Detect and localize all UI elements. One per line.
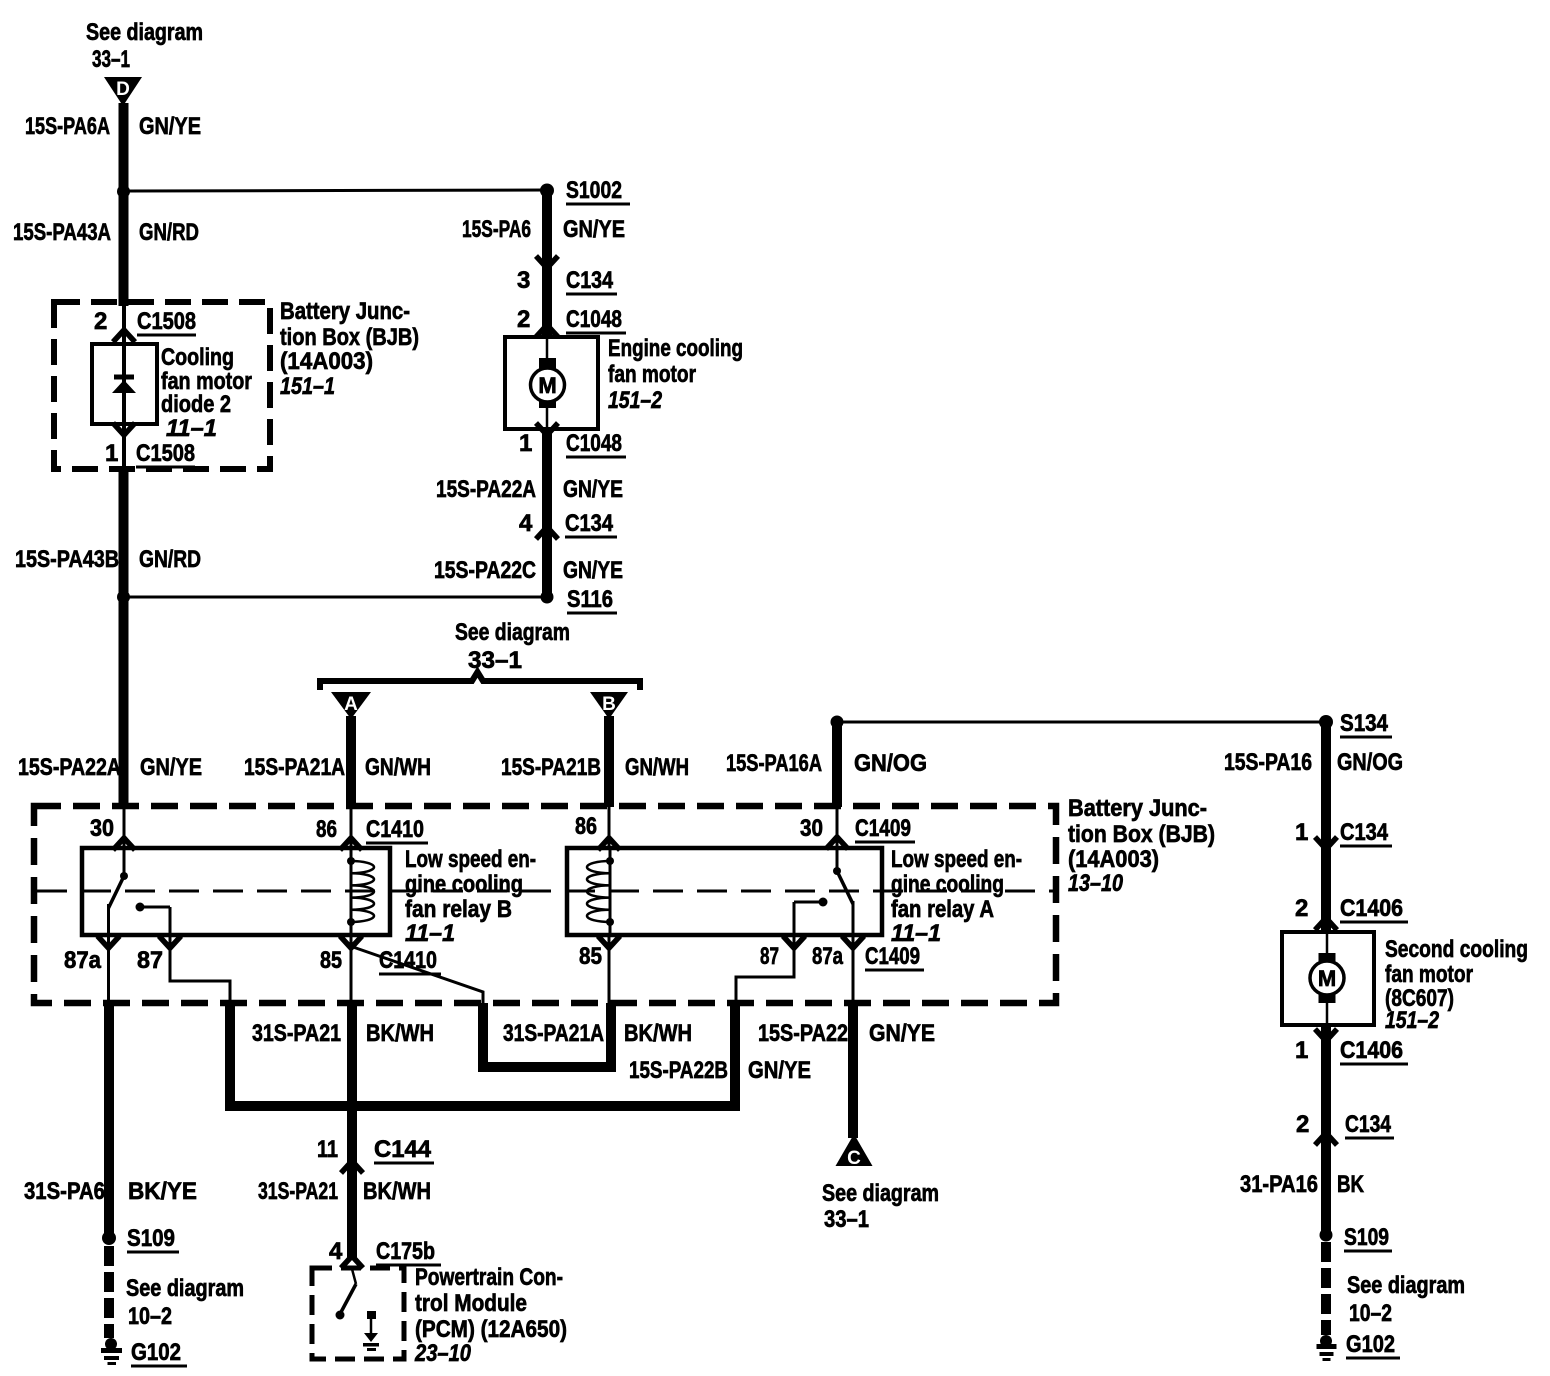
connector C1406 (bottom) <box>1340 1037 1408 1064</box>
svg-text:M: M <box>1318 966 1336 991</box>
motor M1 internals <box>531 337 565 429</box>
note: See diagram 10-2 (left) <box>126 1275 244 1330</box>
PCM internal ground arrow <box>363 1311 379 1351</box>
connector C144 <box>374 1136 434 1163</box>
connector C1409 (top) <box>855 815 915 842</box>
svg-text:(PCM) (12A650): (PCM) (12A650) <box>415 1316 567 1343</box>
wire 31-PA16 (thick) <box>1321 1025 1331 1237</box>
svg-text:C1508: C1508 <box>136 440 195 467</box>
svg-text:C1048: C1048 <box>566 430 622 457</box>
svg-text:G102: G102 <box>1346 1331 1395 1358</box>
Battery Junction Box dashed outline (upper) <box>54 302 270 469</box>
svg-text:15S-PA22B: 15S-PA22B <box>629 1057 728 1084</box>
svg-text:tion Box (BJB): tion Box (BJB) <box>1068 821 1215 848</box>
svg-text:GN/YE: GN/YE <box>563 557 623 584</box>
svg-text:10–2: 10–2 <box>1349 1300 1392 1327</box>
svg-text:BK/WH: BK/WH <box>366 1020 434 1047</box>
wire 31S-PA6 (thick, relay B 87a down) <box>104 1003 114 1240</box>
svg-text:GN/YE: GN/YE <box>869 1020 935 1047</box>
svg-text:15S-PA22A: 15S-PA22A <box>18 754 121 781</box>
svg-text:1: 1 <box>1295 1037 1308 1064</box>
relay B coil <box>347 848 374 935</box>
svg-text:BK/WH: BK/WH <box>363 1178 431 1205</box>
svg-text:13–10: 13–10 <box>1068 870 1124 897</box>
svg-text:85: 85 <box>320 947 342 974</box>
svg-text:15S-PA21A: 15S-PA21A <box>244 754 345 781</box>
svg-text:11–1: 11–1 <box>166 415 217 442</box>
connector C134 (pin 4) <box>565 510 617 537</box>
relay A switch <box>794 848 853 935</box>
Powertrain Control Module dashed box <box>312 1268 404 1359</box>
wire 15S-PA6 (thick) <box>542 190 552 337</box>
off-page connector C <box>836 1134 873 1169</box>
svg-text:87a: 87a <box>812 943 844 970</box>
svg-text:15S-PA6A: 15S-PA6A <box>25 113 110 140</box>
svg-text:C1508: C1508 <box>137 308 196 335</box>
arrow up into diode (pin 2) <box>113 330 135 342</box>
svg-text:151–2: 151–2 <box>1385 1007 1440 1034</box>
connector C1410 (top) <box>366 816 428 843</box>
svg-text:11–1: 11–1 <box>405 920 455 947</box>
Battery Junction Box dashed outline (lower) <box>34 806 1056 1003</box>
splice junction dot (15S-PA43B to S116 tap) <box>117 591 130 604</box>
svg-text:87: 87 <box>760 943 779 970</box>
svg-text:15S-PA22A: 15S-PA22A <box>436 476 536 503</box>
svg-text:Powertrain Con-: Powertrain Con- <box>415 1264 563 1291</box>
svg-text:B: B <box>602 694 616 715</box>
arrow down relay B pin 87 <box>159 936 181 948</box>
connector C175b <box>376 1238 441 1265</box>
svg-text:S109: S109 <box>127 1225 175 1252</box>
arrow down at C1406 pin 1 <box>1315 1029 1337 1041</box>
arrow down out of motor (pin 1) <box>536 423 558 435</box>
svg-text:See diagram: See diagram <box>126 1275 244 1302</box>
svg-text:3: 3 <box>517 267 530 294</box>
connector C1406 (top) <box>1340 895 1408 922</box>
pin 86 lead (relay B) <box>350 807 353 848</box>
svg-text:30: 30 <box>90 815 114 842</box>
wire to S116 (thin horizontal) <box>124 596 548 599</box>
arrow down out of diode (pin 1) <box>113 423 135 435</box>
connector C134 (right top) <box>1340 819 1392 846</box>
svg-text:2: 2 <box>1295 895 1308 922</box>
arrow up at C1406 pin 2 <box>1315 918 1337 930</box>
connector C1048 (pin 2) <box>566 306 626 333</box>
svg-text:C1406: C1406 <box>1340 895 1403 922</box>
svg-text:S1002: S1002 <box>566 177 622 204</box>
wire through diode box (thin) <box>122 306 126 469</box>
off-page connector D <box>104 77 142 106</box>
splice S116 dot <box>541 591 554 604</box>
svg-text:Low speed en-: Low speed en- <box>891 846 1022 873</box>
svg-text:15S-PA22: 15S-PA22 <box>758 1020 848 1047</box>
arrow down at C134 pin 1 (right) <box>1315 837 1337 849</box>
svg-text:15S-PA43A: 15S-PA43A <box>13 219 111 246</box>
svg-text:151–2: 151–2 <box>608 387 663 414</box>
svg-text:C1406: C1406 <box>1340 1037 1403 1064</box>
wire relay A 87 inside BJB <box>736 935 794 1004</box>
PCM internal switch <box>336 1269 357 1320</box>
svg-text:C134: C134 <box>565 510 614 537</box>
lead relay A 87a to BJB edge <box>852 935 855 1004</box>
splice junction dot (15S-PA6A to S1002 tap) <box>117 185 130 198</box>
arrow down relay A pin 87a <box>842 936 864 948</box>
svg-text:31-PA16: 31-PA16 <box>1240 1171 1318 1198</box>
note: See diagram 33-1 (middle) <box>455 619 570 674</box>
component text: Second cooling fan motor <box>1385 936 1528 1034</box>
relay A box <box>567 848 882 935</box>
svg-text:15S-PA16: 15S-PA16 <box>1224 749 1312 776</box>
svg-text:Engine cooling: Engine cooling <box>608 335 743 362</box>
svg-text:GN/YE: GN/YE <box>139 113 201 140</box>
splice S109 dot (left) <box>102 1231 116 1245</box>
diode symbol <box>112 377 136 393</box>
dashed wire to G102 (right) <box>1321 1242 1331 1335</box>
svg-text:15S-PA22C: 15S-PA22C <box>434 557 536 584</box>
svg-text:2: 2 <box>517 306 530 333</box>
ground G102 (right) <box>1317 1335 1337 1361</box>
arrow up at C175b pin 4 <box>341 1256 363 1268</box>
wire 15S-PA43B (thick) <box>119 469 129 601</box>
pin 86 lead (relay A) <box>608 807 611 848</box>
arrow down relay A pin 87 <box>783 936 805 948</box>
svg-text:86: 86 <box>575 813 597 840</box>
dashed wire to G102 (left) <box>104 1246 114 1338</box>
note: See diagram 10-2 (right) <box>1347 1272 1465 1327</box>
arrow down at C134 pin 3 <box>536 256 558 268</box>
label S1002 <box>566 177 630 204</box>
second cooling fan motor M2 box <box>1282 932 1374 1025</box>
wire 31S-PA21 (thick, relay B 85 to PCM) <box>347 1003 357 1258</box>
arrow up at relay A pin 86 <box>598 838 620 850</box>
note: See diagram 33-1 (bottom) <box>822 1180 939 1233</box>
lead relay B 85 to BJB edge <box>350 935 353 1004</box>
wire 15S-PA6A / 15S-PA43A (thick vertical, left) <box>119 103 129 306</box>
svg-text:See diagram: See diagram <box>1347 1272 1465 1299</box>
svg-text:GN/YE: GN/YE <box>140 754 202 781</box>
svg-text:C1409: C1409 <box>865 943 920 970</box>
svg-text:C: C <box>847 1148 861 1169</box>
svg-text:33–1: 33–1 <box>92 46 130 73</box>
svg-text:(14A003): (14A003) <box>280 348 373 375</box>
component text: Low speed engine cooling fan relay A <box>891 846 1022 947</box>
label S116 <box>567 586 617 613</box>
svg-text:4: 4 <box>519 510 533 537</box>
svg-text:GN/OG: GN/OG <box>854 750 927 777</box>
svg-text:fan relay B: fan relay B <box>405 896 512 923</box>
svg-text:BK/WH: BK/WH <box>624 1020 692 1047</box>
svg-text:C134: C134 <box>566 267 614 294</box>
svg-text:GN/WH: GN/WH <box>625 754 689 781</box>
wire 15S-PA21B (thick) <box>604 716 614 807</box>
junction dot (15S-PA16A tap) <box>831 716 844 729</box>
connector C1409 (bottom) <box>865 943 924 970</box>
svg-text:Battery Junc-: Battery Junc- <box>1068 795 1207 822</box>
svg-text:C1410: C1410 <box>366 816 424 843</box>
svg-text:33–1: 33–1 <box>824 1206 869 1233</box>
connector C1048 (pin 1) <box>566 430 626 457</box>
component text: Engine cooling fan motor <box>608 335 743 414</box>
label S109 (left) <box>127 1225 179 1252</box>
svg-text:Cooling: Cooling <box>161 344 234 371</box>
wire 15S-PA22 (thick, relay A 87a down) <box>848 1003 858 1138</box>
connector C134 (right bottom) <box>1345 1111 1394 1138</box>
svg-text:GN/RD: GN/RD <box>139 219 199 246</box>
motor M2 internals <box>1310 932 1344 1025</box>
svg-text:S116: S116 <box>567 586 613 613</box>
ground G102 (left) <box>101 1338 122 1365</box>
svg-text:C175b: C175b <box>376 1238 435 1265</box>
svg-text:BK: BK <box>1337 1171 1365 1198</box>
lead relay B 87a to BJB edge <box>107 935 110 1004</box>
arrow up at C134 pin 2 (right) <box>1315 1133 1337 1145</box>
off-page connector B <box>590 692 628 719</box>
svg-text:4: 4 <box>329 1238 343 1265</box>
relay B switch <box>109 848 171 935</box>
cooling fan motor diode 2 box <box>92 344 157 424</box>
svg-text:GN/WH: GN/WH <box>365 754 431 781</box>
svg-text:GN/RD: GN/RD <box>139 546 201 573</box>
svg-text:23–10: 23–10 <box>414 1340 471 1367</box>
svg-text:C134: C134 <box>1340 819 1389 846</box>
label S134 <box>1340 710 1392 737</box>
wire 15S-PA16 (thick) <box>1321 722 1331 932</box>
svg-text:11: 11 <box>317 1136 338 1163</box>
svg-text:See diagram: See diagram <box>822 1180 939 1207</box>
svg-text:31S-PA21: 31S-PA21 <box>252 1020 341 1047</box>
note: See diagram 33-1 (top left) <box>86 19 203 73</box>
wire 15S-PA22A right (thick) <box>542 429 552 601</box>
svg-text:Second cooling: Second cooling <box>1385 936 1528 963</box>
label G102 (left) <box>131 1339 187 1366</box>
arrow up at C134 pin 4 <box>536 527 558 539</box>
svg-text:A: A <box>344 694 358 715</box>
svg-text:S109: S109 <box>1344 1224 1389 1251</box>
engine cooling fan motor M1 box <box>505 337 598 429</box>
lead relay A 85 to BJB edge <box>608 935 611 1004</box>
wire 15S-PA21A (thick) <box>346 716 356 807</box>
svg-text:C1409: C1409 <box>855 815 911 842</box>
wire 31S-PA21A diagonal branch <box>353 947 483 1004</box>
svg-text:1: 1 <box>105 440 118 467</box>
pin 30 lead (relay A) <box>836 807 839 848</box>
arrow down relay B pin 87a <box>98 936 120 948</box>
svg-text:30: 30 <box>800 815 823 842</box>
svg-text:1: 1 <box>1295 819 1308 846</box>
svg-text:See diagram: See diagram <box>455 619 570 646</box>
svg-text:D: D <box>116 79 130 100</box>
off-page connector A <box>331 692 371 719</box>
BJB title (lower) <box>1068 795 1215 897</box>
svg-text:BK/YE: BK/YE <box>128 1178 197 1205</box>
BJB title (upper) <box>280 298 419 400</box>
svg-text:fan motor: fan motor <box>608 361 696 388</box>
svg-text:10–2: 10–2 <box>128 1303 172 1330</box>
svg-text:C1048: C1048 <box>566 306 622 333</box>
svg-text:GN/YE: GN/YE <box>748 1057 811 1084</box>
svg-text:86: 86 <box>316 816 337 843</box>
splice S1002 dot <box>540 184 554 198</box>
svg-text:diode 2: diode 2 <box>161 391 231 418</box>
svg-text:fan relay A: fan relay A <box>891 896 994 923</box>
wire 15S-PA16A (thick) <box>832 722 842 807</box>
svg-text:2: 2 <box>1296 1111 1309 1138</box>
svg-text:Battery Junc-: Battery Junc- <box>280 298 410 325</box>
wire relay B 87 inside BJB <box>170 935 230 1004</box>
svg-text:Low speed en-: Low speed en- <box>405 846 536 873</box>
component text: Low speed engine cooling fan relay B <box>405 846 536 947</box>
arrow down relay B pin 85 <box>340 936 362 948</box>
svg-text:fan motor: fan motor <box>1385 961 1473 988</box>
pin 30 lead (relay B) <box>123 807 126 848</box>
wire 15S-PA22A left (thick) <box>119 597 129 807</box>
arrow up at relay A pin 30 <box>826 837 848 849</box>
wire 31S-PA21A U-branch (thick) <box>483 1003 611 1067</box>
arrow up at relay B pin 30 <box>113 838 135 850</box>
splice S134 dot <box>1319 715 1333 729</box>
svg-text:15S-PA21B: 15S-PA21B <box>501 754 601 781</box>
label S109 (right) <box>1344 1224 1392 1251</box>
svg-text:trol Module: trol Module <box>415 1290 527 1317</box>
svg-text:(14A003): (14A003) <box>1068 846 1159 873</box>
wire 15S-PA22B bus (thick) <box>230 1003 735 1106</box>
arrow up at C144 pin 11 <box>341 1161 363 1173</box>
svg-text:C144: C144 <box>374 1136 432 1163</box>
connector C1508 (top) <box>137 308 196 335</box>
relay A coil <box>587 848 614 935</box>
svg-text:M: M <box>538 373 556 398</box>
bracket over connectors A and B <box>320 672 640 690</box>
svg-text:31S-PA21A: 31S-PA21A <box>503 1020 604 1047</box>
connector C1410 (bottom) <box>379 947 441 974</box>
svg-text:15S-PA6: 15S-PA6 <box>462 216 531 243</box>
wire to S134 (thin horizontal) <box>837 721 1326 724</box>
svg-text:GN/YE: GN/YE <box>563 216 625 243</box>
svg-text:G102: G102 <box>131 1339 181 1366</box>
BJB internal dashed line <box>37 890 1053 893</box>
svg-text:151–1: 151–1 <box>280 373 335 400</box>
component text: Powertrain Control Module (PCM) <box>414 1264 567 1367</box>
svg-text:GN/OG: GN/OG <box>1337 749 1403 776</box>
svg-text:87: 87 <box>137 947 163 974</box>
arrow up into motor (pin 2) <box>536 325 558 337</box>
svg-text:GN/YE: GN/YE <box>563 476 623 503</box>
svg-text:15S-PA43B: 15S-PA43B <box>15 546 119 573</box>
svg-text:31S-PA6: 31S-PA6 <box>24 1178 105 1205</box>
svg-text:31S-PA21: 31S-PA21 <box>258 1178 338 1205</box>
arrow up at relay B pin 86 <box>340 838 362 850</box>
svg-text:tion Box (BJB): tion Box (BJB) <box>280 324 419 351</box>
component text: Cooling fan motor diode 2 <box>161 344 252 442</box>
svg-text:2: 2 <box>94 308 107 335</box>
connector C134 (pin 3) <box>566 267 617 294</box>
relay B box <box>82 848 390 935</box>
svg-text:85: 85 <box>579 943 602 970</box>
svg-text:gine cooling: gine cooling <box>405 871 523 898</box>
svg-text:See diagram: See diagram <box>86 19 203 46</box>
label G102 (right) <box>1346 1331 1400 1358</box>
svg-text:87a: 87a <box>64 947 102 974</box>
wire to S1002 (thin horizontal) <box>124 190 548 191</box>
connector C1508 (bottom) <box>136 440 195 467</box>
svg-text:gine cooling: gine cooling <box>891 871 1004 898</box>
svg-text:S134: S134 <box>1340 710 1389 737</box>
svg-text:C134: C134 <box>1345 1111 1392 1138</box>
svg-text:1: 1 <box>519 430 532 457</box>
svg-text:15S-PA16A: 15S-PA16A <box>726 750 822 777</box>
arrow down relay A pin 85 <box>598 936 620 948</box>
splice S109 dot (right) <box>1320 1229 1333 1242</box>
